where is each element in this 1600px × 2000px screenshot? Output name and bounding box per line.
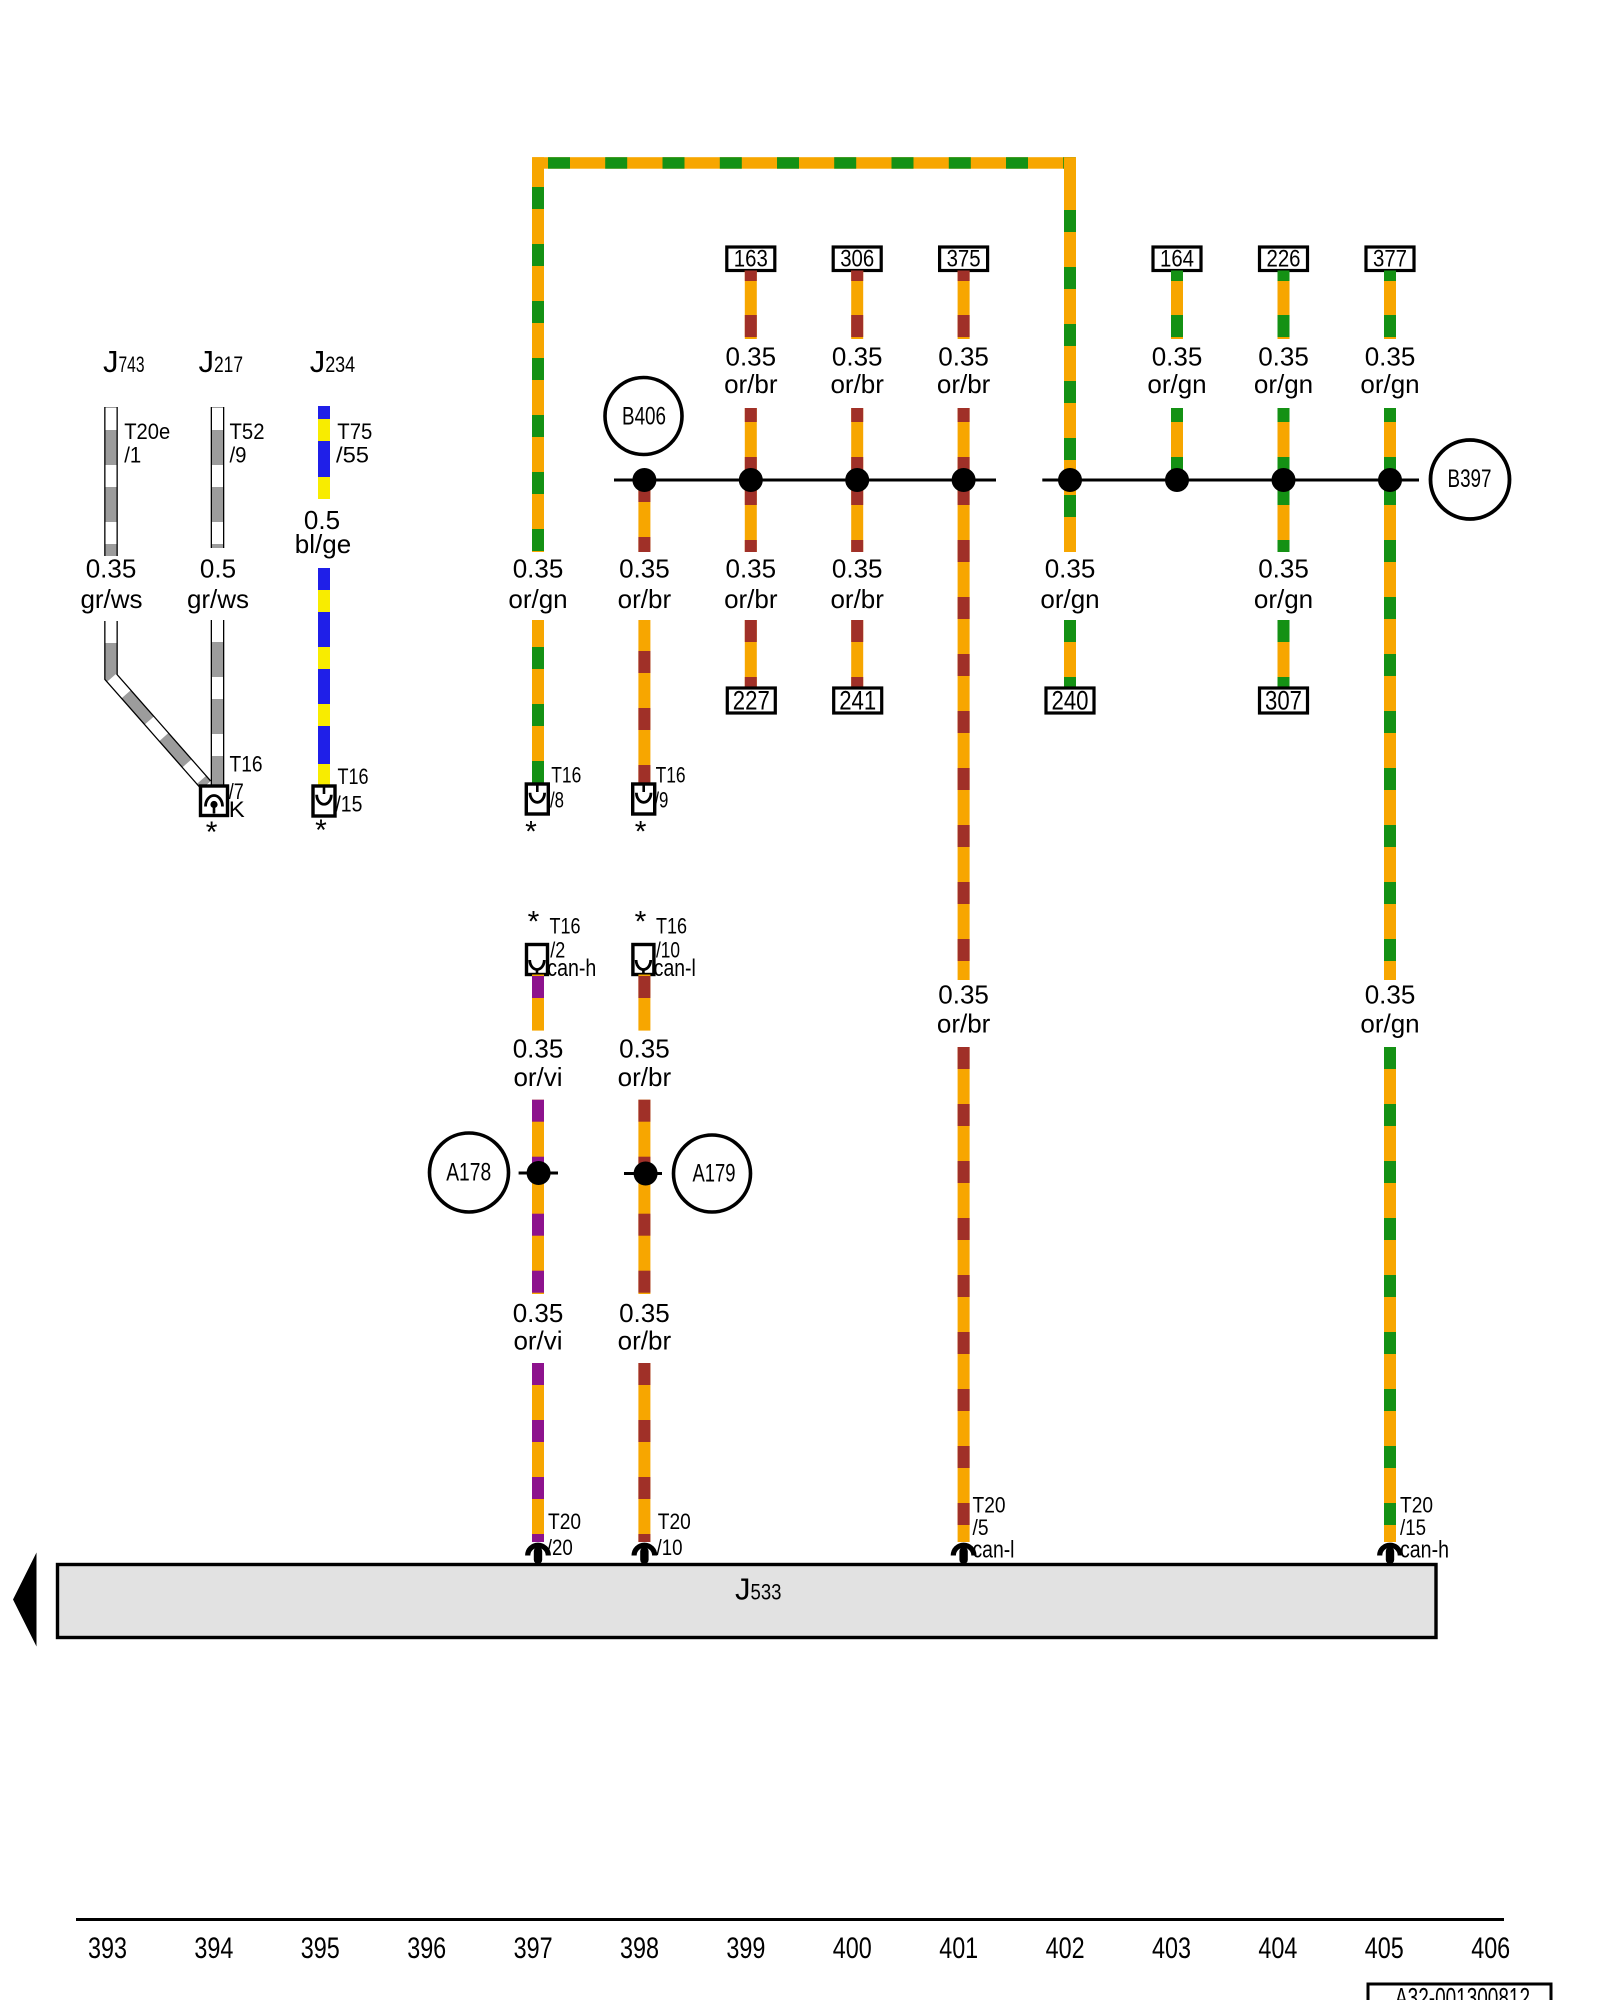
node circle B406 [605,378,682,455]
svg-text:or/gn: or/gn [508,584,567,614]
svg-text:T16: T16 [656,914,687,939]
label 0.35 or/br (wire G upper) [830,342,884,400]
svg-text:/8: /8 [550,788,564,813]
svg-text:T52: T52 [230,419,265,444]
wire D' or/vi segment 2 [532,1100,544,1294]
junction dot at x=1070 [1058,468,1082,492]
wire: CAN bus or/gn right vertical leg (wire I top) [1064,157,1076,552]
svg-text:/1: /1 [124,443,141,468]
CAN node line right segment [1042,479,1419,482]
label 0.35 or/gn (wire D) [508,554,567,615]
label T16/10 can-l [635,906,696,983]
svg-text:398: 398 [620,1932,659,1965]
svg-text:0.35: 0.35 [1365,342,1416,372]
svg-text:240: 240 [1052,686,1089,716]
svg-text:0.35: 0.35 [1045,554,1096,584]
svg-text:or/br: or/br [618,584,672,614]
wire J or/gn segment under box 164 [1171,271,1183,340]
terminal box 241 [834,686,882,716]
label 0.35 or/br (A179 upper) [618,1034,672,1093]
svg-text:401: 401 [939,1932,978,1965]
svg-text:*: * [635,906,647,939]
svg-text:can-h: can-h [547,955,596,982]
wire E' or/br segment 2 [638,1100,650,1294]
J533 entry pin T20/10 [634,1545,655,1564]
wire J217 gr/ws upper segment [211,407,225,548]
svg-text:0.35: 0.35 [513,554,564,584]
label J234 [310,344,356,379]
svg-text:or/br: or/br [618,1326,672,1356]
svg-text:406: 406 [1471,1932,1510,1965]
svg-text:B397: B397 [1448,465,1492,493]
ECU box J533 [58,1565,1437,1638]
node circle B397 [1431,440,1510,519]
terminal box 240 [1046,686,1094,716]
svg-text:or/gn: or/gn [1360,369,1419,399]
svg-text:T20: T20 [658,1509,691,1534]
svg-text:T20: T20 [1400,1493,1433,1518]
terminal box 226 [1260,246,1308,273]
svg-text:394: 394 [194,1932,233,1965]
svg-text:T20: T20 [973,1493,1006,1518]
label 0.35 gr/ws (J743) [80,554,142,615]
svg-text:0.35: 0.35 [832,342,883,372]
junction dot at x=1283.5 [1272,468,1296,492]
wire J743 gr/ws lower segment with diagonal [111,621,206,785]
svg-text:/9: /9 [654,788,668,813]
svg-text:227: 227 [733,686,770,716]
terminal box 375 [940,246,988,273]
svg-text:gr/ws: gr/ws [80,584,142,614]
wire F or/br segment to node [745,408,757,480]
svg-text:402: 402 [1046,1932,1085,1965]
svg-text:or/gn: or/gn [1147,369,1206,399]
svg-text:or/br: or/br [830,584,884,614]
svg-text:T16: T16 [550,914,581,939]
asterisk below T16/8 [525,816,537,849]
svg-text:/55: /55 [336,443,369,468]
continuation arrow left of J533 [13,1553,37,1647]
svg-text:404: 404 [1258,1932,1297,1965]
label T52/9 [230,419,265,467]
wire G or/br segment to box 241 [851,620,863,688]
wire I or/gn lower segment to box 240 [1064,620,1076,688]
svg-text:399: 399 [726,1932,765,1965]
label 0.35 or/gn (wire L upper) [1360,342,1419,400]
svg-text:or/br: or/br [724,584,778,614]
terminal box 227 [727,686,775,716]
grid separator line [76,1918,1504,1921]
junction dot at x=963.6 [952,468,976,492]
label 0.35 or/vi (lower) [513,1298,564,1356]
svg-text:0.35: 0.35 [513,1034,564,1064]
label 0.35 or/gn (wire L mid) [1360,980,1419,1039]
label T16/7 K [229,752,263,822]
svg-text:0.35: 0.35 [1258,554,1309,584]
svg-text:or/gn: or/gn [1254,369,1313,399]
label 0.35 or/br (A179 lower) [618,1298,672,1356]
svg-text:403: 403 [1152,1932,1191,1965]
svg-text:0.5: 0.5 [200,554,236,584]
wire L or/gn long segment below node [1384,480,1396,980]
wire: CAN bus or/gn left vertical leg (to T16/8) [532,157,544,552]
svg-text:0.35: 0.35 [513,1298,564,1328]
svg-text:0.35: 0.35 [619,554,670,584]
junction dot A179 [634,1162,658,1186]
wire E or/br lower segment [638,620,650,784]
svg-text:400: 400 [833,1932,872,1965]
node circle A178 [430,1133,509,1212]
svg-text:/9: /9 [230,443,247,468]
svg-text:*: * [315,814,327,847]
label 0.35 or/br (wire H mid) [937,980,991,1039]
wire E' or/br segment 1 [638,975,650,1031]
svg-text:377: 377 [1373,246,1407,273]
wire F or/br segment to box 227 [745,620,757,688]
wire J or/gn segment to node [1171,408,1183,480]
connector T16/10 can-l [633,945,654,975]
junction dot at x=644.4 [632,468,656,492]
svg-text:can-h: can-h [1400,1537,1449,1564]
svg-text:0.35: 0.35 [1258,342,1309,372]
wire H or/br segment under box 375 [958,271,970,340]
label 0.35 or/br (wire F lower) [724,554,778,615]
CAN node line left segment [614,479,996,482]
svg-text:B406: B406 [622,403,666,431]
wire F or/br segment under box 163 [745,271,757,340]
svg-text:T16: T16 [656,763,686,788]
svg-text:T20: T20 [548,1509,581,1534]
wire G or/br segment to node [851,408,863,480]
svg-text:T16: T16 [338,764,369,789]
label T16/9 [654,763,685,813]
J533 entry pin T20/5 [953,1545,974,1564]
svg-text:0.35: 0.35 [725,342,776,372]
svg-text:*: * [206,816,218,849]
wire: or/gn left leg lower segment [532,620,544,784]
wire G or/br segment under box 306 [851,271,863,340]
label 0.5 bl/ge (J234) [295,505,351,559]
svg-text:or/vi: or/vi [513,1062,562,1092]
svg-text:0.35: 0.35 [1152,342,1203,372]
wire E or/br below B406 node [638,470,650,552]
connector T16/8 [526,784,548,814]
svg-text:*: * [525,816,537,849]
label 0.35 or/gn (wire K lower) [1254,554,1313,615]
svg-text:A178: A178 [446,1159,491,1187]
junction dot at x=1390 [1378,468,1402,492]
node tick A179 [624,1172,662,1175]
junction dot A178 [527,1161,551,1185]
svg-text:393: 393 [88,1932,127,1965]
grid coordinate numbers 393-406 [88,1932,1510,1965]
label T20/10 [657,1509,691,1560]
svg-text:A179: A179 [693,1160,736,1188]
connector T16/7 K [201,786,228,816]
asterisk below T16/9 [635,816,647,849]
wire F or/br segment below node [745,480,757,552]
svg-text:306: 306 [840,246,874,273]
J533 entry pin T20/15 [1380,1545,1401,1564]
svg-text:T16: T16 [230,752,263,777]
label 0.35 or/br (wire E) [618,554,672,615]
label T16/15 [335,764,368,817]
wire L or/gn segment under box 377 [1384,271,1396,340]
connector T16/9 [633,784,655,814]
label T16/8 [550,763,581,813]
terminal box 164 [1153,246,1201,273]
svg-text:/20: /20 [547,1535,573,1560]
asterisk below T16/15 [315,814,327,847]
wire K or/gn segment under box 226 [1278,271,1290,340]
svg-text:226: 226 [1267,246,1301,273]
svg-text:375: 375 [947,246,981,273]
label T75/55 [336,419,372,467]
svg-text:T75: T75 [337,419,372,444]
label 0.35 or/vi (upper) [513,1034,564,1093]
wire: CAN bus or/gn top horizontal segment [532,157,1075,169]
terminal box 163 [727,246,775,273]
wire H or/br segment to node [958,408,970,480]
svg-text:/10: /10 [657,1535,683,1560]
svg-text:0.35: 0.35 [86,554,137,584]
label 0.35 or/br (wire F upper) [724,342,778,400]
wire K or/gn segment below node [1278,480,1290,552]
junction dot at x=750.8 [739,468,763,492]
svg-text:0.35: 0.35 [832,554,883,584]
label 0.5 gr/ws (J217) [187,554,249,615]
wire E' or/br segment 3 [638,1363,650,1542]
svg-text:0.35: 0.35 [725,554,776,584]
node tick A178 [519,1172,558,1175]
diagram code box A32-001300812 [1368,1982,1551,2000]
wire K or/gn segment to box 307 [1278,620,1290,688]
svg-text:K: K [229,797,245,822]
label 0.35 or/gn (wire K upper) [1254,342,1313,400]
svg-text:307: 307 [1265,686,1302,716]
wire J234 bl/ge lower segment [318,568,330,786]
svg-text:or/br: or/br [618,1062,672,1092]
svg-text:164: 164 [1160,246,1194,273]
svg-text:*: * [635,816,647,849]
connector T16/2 can-h [527,945,548,975]
junction dot at x=1177 [1165,468,1189,492]
label 0.35 or/br (wire G lower) [830,554,884,615]
svg-text:A32-001300812: A32-001300812 [1395,1982,1530,2000]
wire H or/br segment to J533 [958,1047,970,1542]
svg-text:*: * [528,906,540,939]
svg-text:or/br: or/br [937,1009,991,1039]
wire G or/br segment below node [851,480,863,552]
wire L or/gn segment to J533 [1384,1047,1396,1542]
svg-text:405: 405 [1365,1932,1404,1965]
label T16/2 can-h [528,906,597,983]
svg-text:/15: /15 [335,792,362,817]
terminal box 377 [1366,246,1414,273]
terminal box 306 [833,246,881,273]
svg-text:can-l: can-l [973,1537,1015,1564]
svg-text:0.35: 0.35 [619,1298,670,1328]
label T20/20 [547,1509,581,1560]
label T20e/1 [124,419,170,467]
asterisk below T16/7 [206,816,218,849]
wire H or/br long segment below node [958,480,970,980]
svg-text:0.35: 0.35 [938,342,989,372]
label 0.35 or/gn (wire J) [1147,342,1206,400]
wire J234 bl/ge upper segment [318,406,330,499]
terminal box 307 [1260,686,1308,716]
svg-text:396: 396 [407,1932,446,1965]
svg-text:or/br: or/br [937,369,991,399]
svg-text:can-l: can-l [654,955,696,982]
label T20/5 can-l [973,1493,1015,1564]
svg-text:or/br: or/br [830,369,884,399]
wire J217 gr/ws lower segment [211,620,225,786]
svg-text:or/gn: or/gn [1254,584,1313,614]
svg-text:T16: T16 [551,763,581,788]
label T20/15 can-h [1400,1493,1449,1564]
connector T16/15 [313,786,335,816]
junction dot at x=857.2 [845,468,869,492]
wire K or/gn segment to node [1278,408,1290,480]
J533 entry pin T20/20 [528,1545,549,1564]
svg-text:397: 397 [514,1932,553,1965]
svg-text:bl/ge: bl/ge [295,529,351,559]
label J743 [103,344,145,379]
svg-text:0.35: 0.35 [1365,980,1416,1010]
svg-text:gr/ws: gr/ws [187,584,249,614]
svg-text:or/gn: or/gn [1040,584,1099,614]
svg-text:0.35: 0.35 [938,980,989,1010]
svg-text:163: 163 [734,246,768,273]
svg-text:241: 241 [839,686,876,716]
svg-text:or/vi: or/vi [513,1326,562,1356]
label 0.35 or/br (wire H upper) [937,342,991,400]
svg-text:T20e: T20e [124,419,170,444]
svg-text:0.35: 0.35 [619,1034,670,1064]
label 0.35 or/gn (wire I) [1040,554,1099,615]
svg-text:or/br: or/br [724,369,778,399]
node circle A179 [674,1135,751,1212]
svg-text:395: 395 [301,1932,340,1965]
label J217 [199,344,244,379]
wire J743 gr/ws upper segment [104,407,118,556]
wire L or/gn segment to node [1384,408,1396,480]
wire D' or/vi segment 3 [532,1363,544,1542]
wire D' or/vi segment 1 [532,975,544,1031]
svg-text:or/gn: or/gn [1360,1009,1419,1039]
